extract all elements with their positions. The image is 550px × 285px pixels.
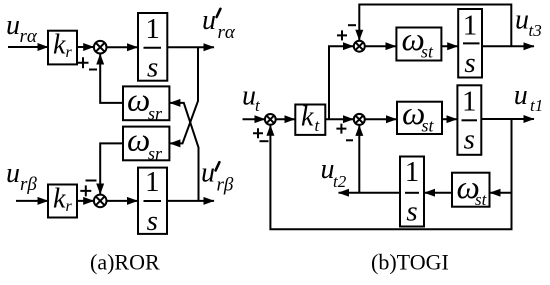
wire: S1 to integrator (alpha) [107,46,138,48]
label minus at T1 [260,140,269,142]
svg-text:r: r [66,198,73,215]
label 1/s (beta) [145,166,160,237]
label u_r_alpha [6,10,38,47]
label minus at S2 [86,180,97,182]
wire: feedback from u_t1 node down right side and into T1 minus input [270,119,511,229]
wire: omega_st bottom to integrator bottom [425,192,453,194]
block k_r (alpha) [48,31,77,65]
summing junction T3 (top) [354,41,365,52]
summing junction T2 (middle) [354,114,365,125]
wire: input u_r_alpha [8,46,48,48]
svg-text:st: st [422,116,435,136]
svg-text:t: t [255,96,261,115]
wire: T2 to omega_st middle [365,118,397,120]
wire: k_t branch up to summing junction T3 [329,46,353,119]
summing junction T1 [265,114,276,125]
wire: k_r alpha to summing junction S1 [77,46,94,48]
label plus at T3 [337,30,347,40]
label u_t2 [321,154,347,191]
block 1/s integrator (beta) [138,168,167,234]
svg-text:u: u [515,4,529,35]
wire: output u_t1 with branch node [481,118,534,120]
block omega_st (bottom) [452,173,490,207]
label plus at T2 [336,124,346,134]
label 1/s (bottom) [405,156,420,228]
wire: output u'_r_beta [167,200,214,202]
svg-text:s: s [406,196,417,228]
wire: output u_t3 with branch node [482,45,534,47]
svg-text:s: s [464,124,475,156]
summing junction S2 (beta) [94,195,107,208]
svg-text:1: 1 [462,86,477,118]
label minus at T3 [348,24,356,26]
label 1/s (middle) [462,86,477,156]
wire: S2 to integrator (beta) [107,200,138,202]
label k_r (alpha) [53,30,73,62]
label 1/s (alpha) [145,13,160,84]
svg-text:k: k [53,30,66,61]
svg-text:sr: sr [148,104,163,124]
block omega_sr 2 [123,127,169,161]
label 1/s (top) [463,10,478,80]
svg-text:1: 1 [145,13,160,45]
label minus at T2 [346,139,353,141]
svg-text:u: u [201,157,215,188]
svg-text:t2: t2 [333,172,347,191]
svg-text:u: u [6,158,20,189]
svg-text:st: st [475,190,488,209]
block omega_st (top) [396,28,441,61]
label omega_st (top) [402,22,435,62]
svg-text:rα: rα [20,26,38,47]
wire: omega_sr1 output to S1 minus input [100,54,123,103]
wire: T1 to k_t [276,118,295,120]
svg-text:rβ: rβ [217,175,234,196]
label omega_sr 2 [127,123,163,164]
wire: u_t2 node up to T2 minus input [358,125,360,192]
wire: feedback from u'_r_beta node up across to omega_sr 1 [170,103,199,201]
svg-text:ω: ω [127,123,150,159]
svg-text:s: s [147,52,158,84]
svg-text:1: 1 [405,156,420,188]
svg-text:t: t [315,116,321,135]
label omega_sr 1 [127,83,163,124]
wire: omega_st middle to integrator middle [442,118,457,120]
block omega_st (middle) [397,102,442,134]
label u_t3 [515,4,542,40]
wire: output u'_r_alpha with branch node [167,46,214,48]
wire: omega_sr2 output to S2 minus input [100,143,123,194]
label omega_st (bottom) [457,170,488,209]
svg-text:k: k [301,102,314,133]
svg-text:u: u [202,5,216,36]
label k_r (beta) [53,184,73,216]
svg-text:t1: t1 [530,96,543,115]
label omega_st (middle) [402,96,435,135]
svg-text:s: s [147,205,158,237]
svg-text:st: st [421,42,434,62]
block 1/s integrator (top) [458,9,482,78]
label minus at S1 [89,69,97,71]
block 1/s integrator (bottom) [400,157,424,227]
wire: feedback from u'_r_alpha node down across to omega_sr 2 [170,47,198,143]
label u'_r_beta [201,157,234,195]
wire: top feedback from u_t3 node to T3 minus input [359,5,511,47]
svg-text:r: r [66,44,73,61]
caption (a)ROR [90,250,160,275]
label u_r_beta [6,158,37,195]
svg-text:(b)TOGI: (b)TOGI [371,250,449,275]
wire: integrator bottom output u_t2 [339,192,401,194]
svg-text:t3: t3 [529,21,542,40]
label u_t [242,81,261,115]
label plus at T1 [253,128,263,138]
svg-text:1: 1 [145,166,160,198]
svg-text:sr: sr [148,144,163,164]
label plus at S1 [78,57,89,68]
svg-text:(a)ROR: (a)ROR [90,250,160,275]
svg-text:k: k [53,184,66,215]
svg-text:ω: ω [127,83,150,119]
summing junction S1 (alpha) [94,41,107,54]
label u_t1 [514,80,544,115]
block 1/s integrator (alpha) [138,13,167,81]
wire: omega_st top to integrator top [441,45,457,47]
block k_t [295,105,325,135]
svg-text:rα: rα [218,22,236,43]
label u'_r_alpha [202,5,236,43]
svg-text:u: u [6,10,20,41]
svg-text:u: u [514,80,528,111]
label k_t [301,102,321,136]
svg-text:u: u [242,81,256,112]
block 1/s integrator (middle) [457,85,481,155]
wire: input u_r_beta [16,200,48,202]
block omega_sr 1 [123,86,169,120]
svg-text:rβ: rβ [20,174,37,195]
block k_r (beta) [48,185,77,218]
svg-text:s: s [464,47,475,79]
wire: T3 to omega_st top [365,45,396,47]
wire: input u_t [243,118,265,120]
wire: k_t output to summing junction T2 with branch node [325,118,353,120]
label plus at S2 [80,185,91,196]
wire: branch from right vertical into omega_st bottom [490,192,512,194]
caption (b)TOGI [371,250,449,275]
svg-text:1: 1 [463,10,478,42]
wire: k_r beta to summing junction S2 [77,200,94,202]
